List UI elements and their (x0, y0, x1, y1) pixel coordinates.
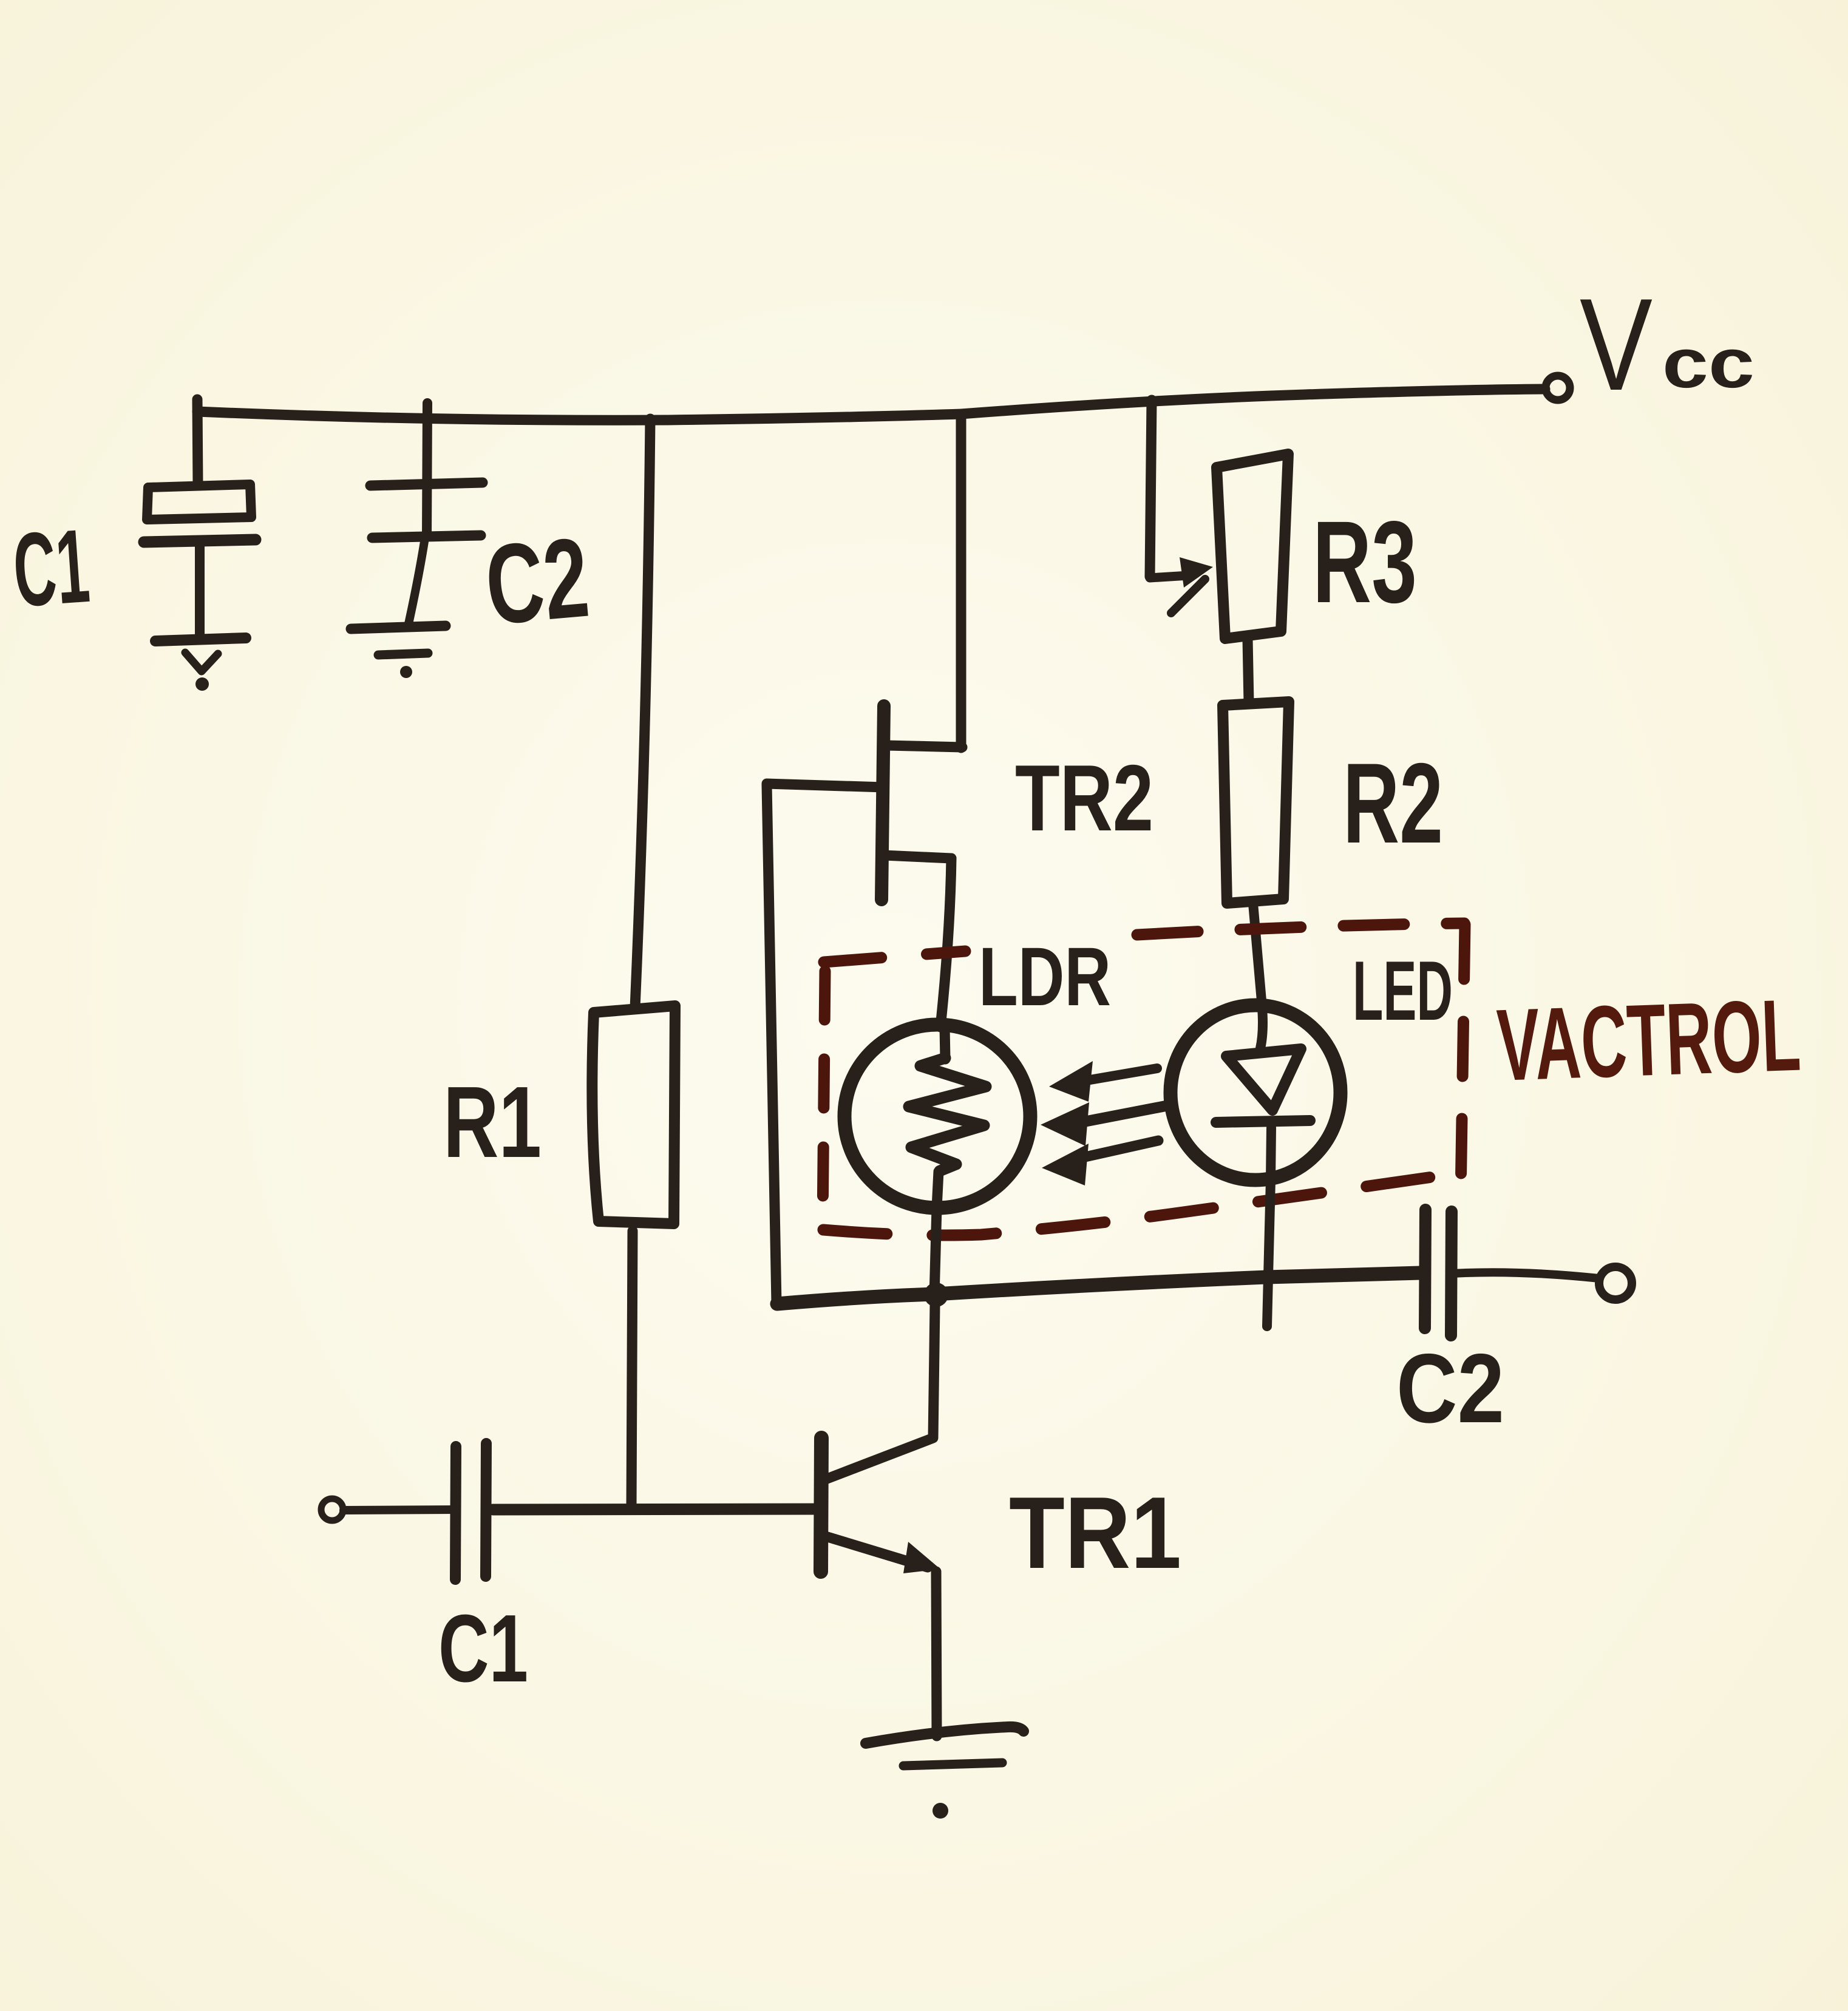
wire input (344, 1510, 455, 1510)
wire R2 to LED (1253, 903, 1263, 1048)
svg-text:C2: C2 (481, 515, 593, 649)
wire R1 stem (631, 1231, 633, 1509)
ground TR1 (866, 1727, 1024, 1743)
resistor R3 rheostat wiper (1150, 575, 1189, 578)
svg-text:TR2: TR2 (1015, 745, 1153, 850)
label C2 output (1396, 1334, 1504, 1443)
svg-text:R1: R1 (443, 1066, 542, 1179)
label VACTROL (1495, 978, 1802, 1102)
svg-text:R3: R3 (1313, 497, 1417, 627)
wire bottom node (777, 1273, 1421, 1304)
label C1 input (438, 1595, 528, 1702)
wire C2 stem (408, 538, 425, 626)
resistor R1 (592, 1006, 675, 1224)
wire C1 drop (197, 399, 198, 486)
wire TR2 source to LDR (940, 858, 951, 1027)
svg-text:C1: C1 (438, 1595, 528, 1702)
capacitor C2 bottom plate (372, 535, 481, 538)
wire R3 to R2 (1248, 639, 1249, 703)
wire TR1 emitter (936, 1572, 937, 1736)
svg-text:R2: R2 (1343, 739, 1443, 867)
svg-text:TR1: TR1 (1009, 1476, 1181, 1590)
resistor R3 (1217, 454, 1288, 639)
wire TR2 drain rail (956, 414, 966, 748)
svg-text:cc: cc (1662, 324, 1755, 402)
transistor TR1 (821, 1438, 821, 1572)
LED (1170, 1005, 1340, 1180)
wire C1 stem (195, 542, 205, 637)
capacitor C1 input (455, 1446, 456, 1579)
svg-text:VACTROL: VACTROL (1495, 978, 1802, 1102)
svg-text:LED: LED (1353, 944, 1453, 1038)
node input terminal (321, 1499, 343, 1521)
svg-text:C2: C2 (1396, 1334, 1504, 1443)
ground C2 (351, 626, 446, 629)
transistor TR2 (886, 745, 962, 747)
resistor R2 (1223, 702, 1289, 903)
label TR1 (1009, 1476, 1181, 1590)
wire TR2 gate rail (767, 785, 776, 1303)
wire R1 rail (635, 419, 650, 1008)
wire R3 drop (1150, 400, 1152, 577)
svg-text:V: V (1580, 271, 1653, 418)
capacitor C1 top plate (147, 484, 251, 520)
wire to output (1452, 1272, 1599, 1278)
capacitor C1 bottom plate (144, 540, 256, 542)
label LDR (979, 931, 1111, 1023)
ground C1 (155, 638, 246, 641)
label R1 (443, 1066, 542, 1179)
capacitor C2 output (1425, 1210, 1425, 1328)
light arrows (1041, 1061, 1166, 1185)
svg-text:LDR: LDR (979, 931, 1111, 1023)
label Vcc (1580, 271, 1755, 418)
wire Vcc bus (197, 389, 1545, 420)
LDR (844, 1025, 1030, 1208)
node output terminal (1599, 1267, 1632, 1300)
label R2 (1343, 739, 1443, 867)
vactrol dashed box (823, 923, 1465, 1235)
svg-text:C1: C1 (10, 507, 93, 629)
capacitor C2 top plate (370, 483, 483, 486)
label TR2 (1015, 745, 1153, 850)
label C1 (10, 507, 93, 629)
wire input to TR1 base (493, 1509, 821, 1510)
label LED (1353, 944, 1453, 1038)
label C2 (481, 515, 593, 649)
node Vcc terminal (1546, 376, 1570, 400)
wire C2 drop (427, 403, 427, 537)
label R3 (1313, 497, 1417, 627)
